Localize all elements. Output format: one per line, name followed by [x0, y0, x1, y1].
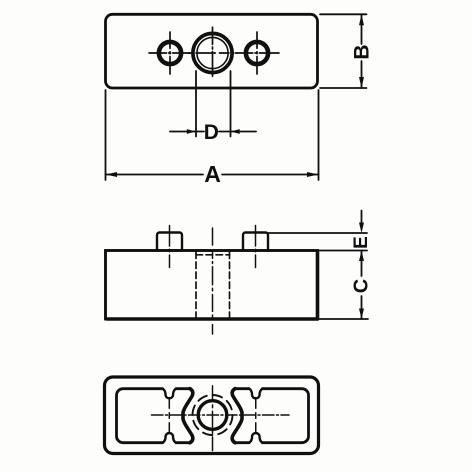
svg-text:E: E	[351, 236, 372, 249]
left pocket arc (around center boss)	[183, 389, 193, 443]
dimension D extension line right	[230, 71, 232, 137]
dimension C line with arrows	[361, 251, 363, 320]
bottom view outer outline	[105, 377, 319, 454]
hole H3 (right drilled hole)	[246, 42, 268, 64]
right notch centerline	[255, 398, 257, 434]
dimension B extension line bottom	[320, 87, 367, 89]
dimension D line right tail with arrow	[219, 131, 256, 133]
dimension E extension line (boss top)	[269, 232, 368, 234]
hole H2 thread minor circle	[197, 37, 228, 68]
left top notch	[162, 389, 176, 399]
dimension A extension line right	[318, 90, 320, 180]
right pocket arc (around center boss)	[232, 389, 242, 443]
svg-text:D: D	[204, 121, 219, 144]
dimension A line	[106, 174, 319, 176]
thread circle dashed (bottom view)	[193, 395, 233, 435]
hole H1 (left drilled hole)	[159, 42, 181, 64]
center hole (bottom view)	[198, 401, 227, 430]
left bottom notch	[162, 433, 176, 443]
dimension E arrow from above	[361, 211, 363, 227]
centerline horizontal hole H2	[188, 52, 234, 54]
right boss	[243, 233, 268, 251]
centerline vertical hole H3	[256, 32, 258, 74]
centerline vertical hole H2	[212, 27, 214, 76]
hole H2 (center threaded hole) outer	[193, 33, 232, 72]
dimension C extension line (body top)	[319, 250, 367, 252]
bottom view inner pocket right	[235, 389, 309, 443]
middle (front) view body outline	[106, 251, 318, 320]
top view outline	[106, 14, 318, 88]
bottom view inner pocket left	[117, 389, 191, 443]
dimension A extension line left	[105, 90, 107, 180]
vertical centerline (bottom view)	[212, 386, 214, 451]
svg-text:C: C	[351, 279, 373, 293]
right top notch	[249, 389, 263, 399]
dimension B line	[361, 14, 363, 88]
centerline vertical hole H1	[169, 32, 171, 74]
hidden counterbore line	[196, 254, 230, 256]
hidden hole line left	[195, 252, 197, 319]
dimension B extension line top	[320, 13, 367, 15]
center hole centerline (front view)	[212, 228, 214, 334]
right boss centerline	[255, 226, 257, 268]
svg-text:B: B	[351, 44, 374, 59]
centerline horizontal hole H3	[236, 52, 280, 54]
dimension D line left tail with arrow	[170, 131, 204, 133]
svg-text:A: A	[204, 161, 221, 187]
right bottom notch	[249, 433, 263, 443]
left boss	[157, 233, 182, 251]
dimension D extension line left	[195, 71, 197, 137]
left notch centerline	[168, 398, 170, 434]
dimension C extension line (body bottom)	[319, 318, 368, 320]
centerline horizontal hole H1	[149, 52, 190, 54]
horizontal centerline (bottom view)	[152, 414, 290, 416]
left boss centerline	[169, 226, 171, 268]
hidden hole line right	[229, 252, 231, 319]
